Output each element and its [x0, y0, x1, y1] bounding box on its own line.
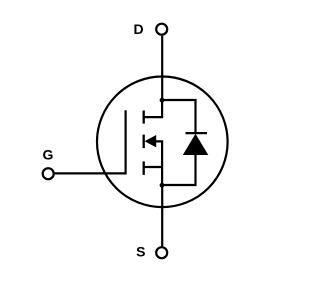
wire source lead	[161, 184, 163, 246]
node source junction	[160, 183, 165, 188]
wire drain contact	[143, 100, 162, 117]
node drain junction	[160, 98, 165, 103]
svg-text:D: D	[133, 21, 143, 37]
transistor body circle Q1	[97, 77, 228, 208]
wire body to source	[156, 141, 163, 185]
terminal D circle	[156, 24, 167, 35]
channel segment drain	[143, 111, 145, 124]
svg-text:S: S	[136, 243, 145, 259]
diode cathode bar	[186, 132, 208, 134]
wire drain lead	[161, 36, 163, 101]
wire source contact	[143, 166, 162, 168]
terminal G circle	[43, 168, 54, 179]
channel segment source	[143, 161, 145, 175]
svg-text:G: G	[43, 146, 54, 162]
channel segment body	[143, 135, 145, 149]
diode anode triangle	[183, 134, 209, 155]
wire diode branch bottom	[162, 154, 195, 186]
wire diode branch top	[162, 100, 195, 133]
arrow body contact	[145, 135, 157, 147]
terminal S circle	[156, 247, 167, 258]
gate electrode	[55, 110, 126, 173]
